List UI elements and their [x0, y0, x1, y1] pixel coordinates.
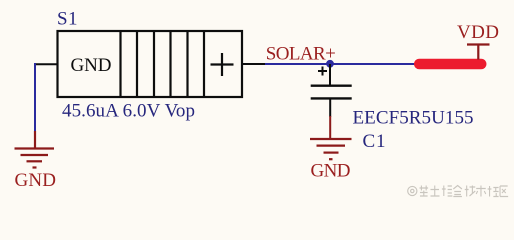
svg-text:GND: GND [311, 161, 351, 182]
pin + (right lead of battery) [241, 63, 266, 65]
battery cell divider 4 [169, 31, 171, 97]
svg-text:EECF5R5U155: EECF5R5U155 [353, 108, 474, 129]
capacitor polarity plus [318, 67, 327, 76]
ground symbol left [15, 131, 55, 168]
svg-text:C1: C1 [363, 131, 386, 152]
battery cell divider 6 [203, 31, 205, 97]
svg-text:GND: GND [15, 170, 57, 191]
capacitor C1 plates [311, 86, 352, 99]
highlight bar (thick red wire marker) [414, 59, 487, 70]
capacitor C1 bottom lead (pin) [329, 99, 331, 116]
watermark [408, 186, 417, 195]
battery cell divider 3 [153, 31, 155, 97]
plus mark inside battery [211, 53, 234, 76]
ground symbol middle [310, 139, 352, 159]
ground stub middle [329, 116, 331, 139]
svg-text:S1: S1 [57, 9, 78, 30]
svg-text:45.6uA 6.0V Vop: 45.6uA 6.0V Vop [62, 101, 195, 122]
battery cell divider 2 [136, 31, 138, 97]
battery cell divider 5 [186, 31, 188, 97]
battery S1 body [58, 31, 243, 97]
svg-text:SOLAR+: SOLAR+ [266, 44, 336, 65]
svg-text:VDD: VDD [457, 22, 499, 43]
wire SOLAR+ horizontal [265, 63, 415, 65]
power port VDD symbol [467, 45, 490, 60]
capacitor C1 top lead [329, 64, 331, 85]
junction node [326, 60, 334, 68]
battery cell divider 1 [119, 31, 121, 97]
wire left vertical [34, 63, 36, 132]
svg-text:GND: GND [71, 55, 112, 76]
pin GND (left lead of battery) [34, 63, 58, 65]
